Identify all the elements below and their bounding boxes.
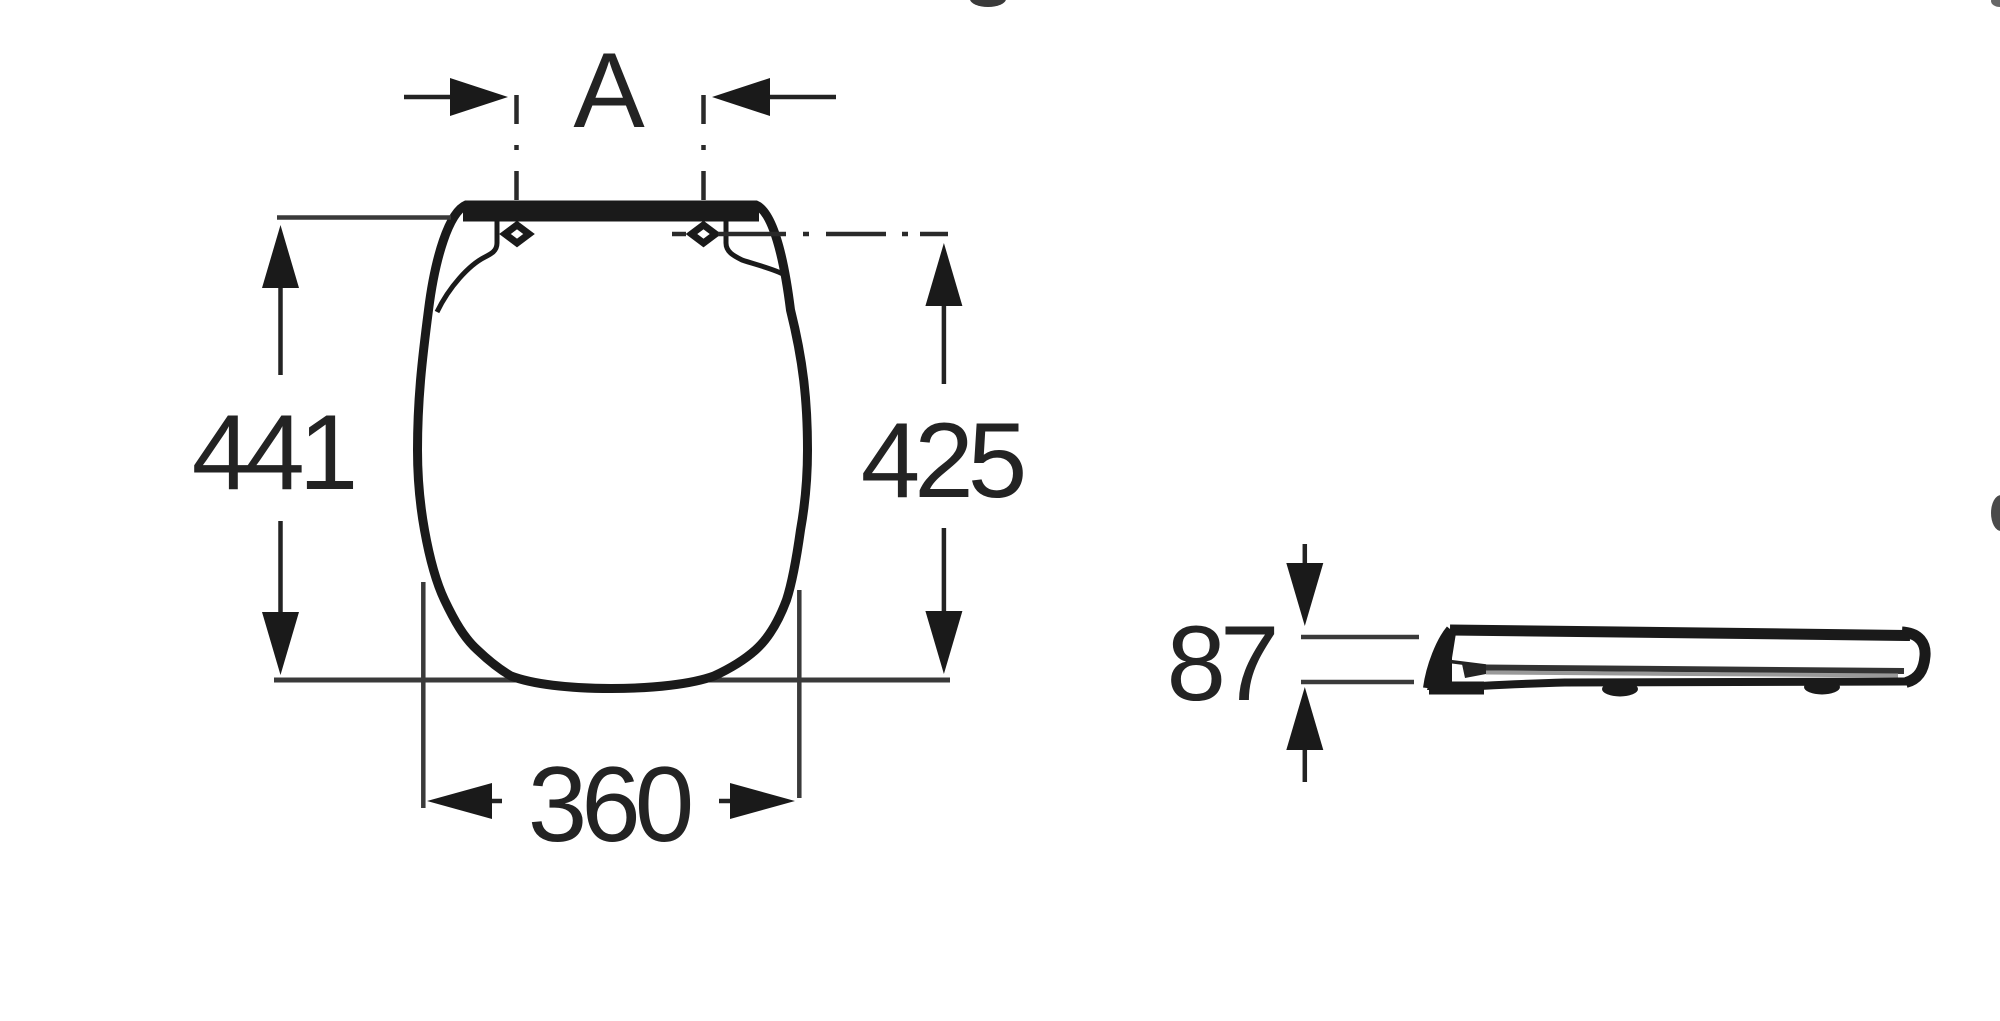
dash-dot extension line A right (vertical) [701, 95, 706, 204]
425 dimension line upper with arrow [942, 258, 947, 384]
right hinge hole (diamond) [692, 225, 716, 243]
360 right arrow [719, 799, 782, 804]
side view: top bar (lid surface) [1450, 630, 1910, 636]
side view: bottom edge thick left part [1429, 682, 1484, 695]
side view: right foot bump [1804, 680, 1840, 695]
dash-dot extension line A left (vertical) [514, 95, 519, 204]
svg-text:425: 425 [861, 400, 1024, 520]
right hinge bracket (interior line) [726, 218, 785, 275]
side view: left end edge [1427, 629, 1450, 688]
side view: left end solid region [1427, 631, 1456, 690]
left hinge bracket (interior line) [437, 218, 497, 312]
425 dimension line lower with arrow [942, 528, 947, 660]
baseline of 441/425 dimensions [274, 678, 950, 683]
side view: seat mid line (dark) [1486, 668, 1904, 672]
87 top reference line [1301, 635, 1419, 640]
dimension A right arrow [762, 95, 836, 100]
svg-text:87: 87 [1166, 603, 1275, 723]
side view: bottom edge [1432, 682, 1912, 689]
svg-text:360: 360 [528, 744, 691, 864]
stray mark top edge (cut-off glyph) [970, 0, 1006, 7]
side view: left foot bump [1602, 682, 1638, 697]
side view: seat mid line (gray) [1486, 673, 1898, 676]
side view: seat mid line top edge over notch [1450, 662, 1486, 667]
dimension A left arrow [404, 95, 460, 100]
svg-text:441: 441 [192, 392, 354, 512]
stray mark top-right corner [1991, 0, 2000, 7]
360 right extension line [797, 590, 802, 798]
87 upper arrow (pointing down) [1303, 544, 1308, 575]
side view: seat mid line start wedge [1462, 664, 1486, 678]
87 lower arrow (pointing up) [1303, 745, 1308, 782]
441 dimension line lower with arrow [278, 521, 283, 660]
360 left extension line [421, 582, 426, 808]
hinge axis dash-dot line (horizontal, to 425 dimension) [672, 232, 948, 237]
360 left arrow [440, 799, 502, 804]
svg-text:A: A [573, 30, 645, 150]
left hinge hole (diamond) [505, 225, 529, 243]
441 dimension line upper with arrow [278, 240, 283, 375]
87 bottom reference line [1301, 680, 1414, 685]
441 top extension line [277, 215, 451, 220]
seat outline (top view egg shape) [418, 205, 808, 689]
side view: right end cap [1902, 632, 1925, 683]
seat top bar (hinge edge, thick) [463, 205, 759, 222]
stray mark right edge (cut-off glyph) [1991, 495, 2000, 531]
